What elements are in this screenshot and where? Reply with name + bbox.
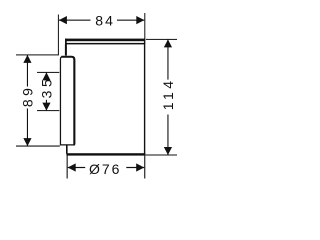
tumbler body right edge (144, 39, 145, 156)
hook plate thick top and right edge (61, 57, 74, 145)
dimension 84 extension line right (144, 13, 145, 39)
dimension 35 arrow down (42, 103, 50, 111)
dimension 35 extension line top (37, 72, 59, 73)
dimension 114 extension line bottom (145, 155, 177, 156)
dimension 89 line lower segment (27, 109, 28, 147)
hook neck (65, 44, 67, 55)
svg-text:89: 89 (20, 85, 36, 108)
hook plate (60, 57, 74, 145)
dimension 89 extension line top (16, 54, 59, 55)
svg-text:84: 84 (95, 13, 115, 29)
dimension D76 line left segment (68, 167, 86, 168)
dimension 84 extension line left (58, 15, 59, 56)
dimension 84 arrow right (136, 16, 144, 24)
dimension 35 line upper segment (46, 72, 47, 77)
dimension 114 line lower segment (167, 115, 168, 156)
wall bar rail (65, 39, 145, 45)
dimension 89 extension line bottom (16, 146, 60, 147)
dimension 89 arrow up (23, 55, 31, 63)
hook plate bottom connector (66, 145, 68, 153)
dimension 114 arrow up (164, 39, 172, 47)
dimension 84 line left segment (59, 20, 91, 21)
dimension 35 arrow up (42, 72, 50, 80)
dimension D76 extension line right (144, 156, 145, 179)
dimension 114 line upper segment (167, 39, 168, 79)
dimension 84 arrow left (59, 16, 67, 24)
dimension 114 extension line top (146, 39, 177, 40)
dimension D76 arrow left (68, 163, 76, 171)
dimension 89 arrow down (23, 138, 31, 146)
dimension D76 extension line left (67, 155, 68, 178)
svg-text:114: 114 (160, 77, 176, 110)
svg-text:35: 35 (39, 76, 55, 99)
dimension 114 arrow down (164, 147, 172, 155)
dimension 35 extension line bottom (37, 110, 59, 111)
tumbler bottom (66, 153, 145, 155)
dimension 84 line right segment (117, 20, 144, 21)
dimension 35 line lower segment (46, 100, 47, 111)
svg-text:Ø76: Ø76 (89, 161, 121, 177)
dimension D76 line right segment (126, 167, 144, 168)
dimension D76 arrow right (136, 163, 144, 171)
dimension 89 line upper segment (27, 55, 28, 87)
